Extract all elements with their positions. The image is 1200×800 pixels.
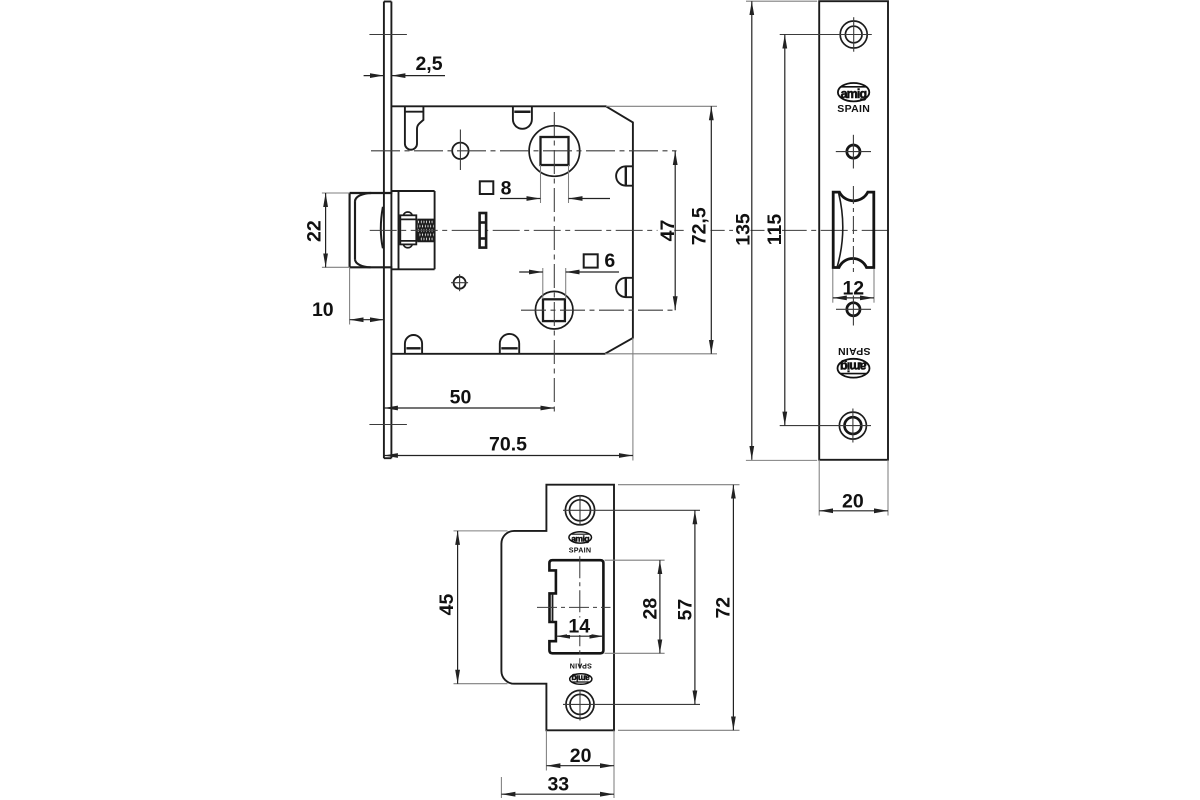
strike bottom screw hole <box>566 690 594 718</box>
svg-text:45: 45 <box>436 594 458 616</box>
svg-text:6: 6 <box>604 250 615 272</box>
latch opening (front view, bold) <box>833 192 874 267</box>
svg-text:2,5: 2,5 <box>415 53 442 75</box>
rivet circle lower <box>454 277 466 289</box>
centerline follower vertical <box>553 112 555 413</box>
centerline lower follower axis <box>521 309 677 311</box>
svg-text:57: 57 <box>674 599 696 621</box>
latch housing box <box>391 191 434 269</box>
dimension 70.5 (case depth) <box>384 434 633 456</box>
dimension 28 (opening height) <box>605 560 665 653</box>
strike top screw hole <box>565 496 594 525</box>
svg-text:47: 47 <box>657 220 679 242</box>
bottom screw hole <box>839 412 866 439</box>
svg-text:amig: amig <box>841 359 867 373</box>
centerline upper follower axis <box>371 150 677 152</box>
top tab (rivet post on top edge) <box>513 107 532 129</box>
case back edge extension line (to 70.5 dim) <box>632 338 634 461</box>
svg-text:amig: amig <box>572 674 590 684</box>
lock case outline <box>391 106 633 353</box>
strike horizontal centerline <box>537 606 611 608</box>
dimension 115 (screw spacing) <box>764 35 786 426</box>
svg-text:SPAIN: SPAIN <box>569 661 591 670</box>
bottom-edge tab right <box>500 334 519 354</box>
strike tab inner line <box>552 593 554 622</box>
svg-text:8: 8 <box>501 177 512 199</box>
dimension 22 (latch height) <box>303 193 349 267</box>
svg-text:20: 20 <box>570 745 592 767</box>
svg-text:10: 10 <box>312 299 334 321</box>
latch bevel arc behind faceplate <box>381 207 383 249</box>
svg-text:amig: amig <box>841 87 867 101</box>
svg-text:SPAIN: SPAIN <box>569 545 591 554</box>
svg-text:72,5: 72,5 <box>689 207 711 245</box>
screw hole centre tick (top, projected) <box>369 34 407 36</box>
svg-text:135: 135 <box>732 213 754 246</box>
bottom-edge tab left <box>405 335 422 354</box>
svg-text:20: 20 <box>842 490 864 512</box>
latch bolt head <box>350 193 393 267</box>
square spindle hole 6mm <box>543 299 565 321</box>
dimension 135 (faceplate length) <box>732 1 817 460</box>
svg-text:70.5: 70.5 <box>489 434 527 456</box>
dimension 50 (backset) <box>384 387 554 409</box>
svg-text:28: 28 <box>639 598 661 620</box>
svg-text:50: 50 <box>450 387 472 409</box>
small hole upper <box>847 145 860 158</box>
strike latch opening (bold) <box>549 560 603 653</box>
dimension 33 (overall width) <box>501 774 614 798</box>
faceplate (side view, vertical bar) <box>384 2 392 459</box>
svg-text:22: 22 <box>303 220 325 242</box>
small hole lower <box>847 303 860 316</box>
guide bracket on spindle axis <box>480 213 487 248</box>
dimension 72 (plate height) <box>618 485 740 731</box>
amig logo strike top <box>569 532 592 544</box>
strike vertical centerline <box>579 556 581 667</box>
spring / threaded section <box>411 219 440 241</box>
dimension 12 (latch width) <box>833 269 874 303</box>
dimension 2,5 (faceplate thickness) <box>364 53 445 76</box>
dimension 14 (opening width) <box>556 616 603 638</box>
strike plate outline <box>501 485 614 731</box>
faceplate front outline <box>819 1 888 460</box>
dimension 45 (lip length) <box>436 531 508 684</box>
dimension 20 (faceplate width) <box>819 460 888 516</box>
svg-text:33: 33 <box>547 774 569 796</box>
amig logo top <box>838 83 869 101</box>
amig logo bottom (rotated 180) <box>838 359 870 378</box>
svg-text:SPAIN: SPAIN <box>837 103 870 115</box>
svg-text:SPAIN: SPAIN <box>838 345 871 357</box>
dimension 20 (plate width) <box>546 730 614 798</box>
dimension 6 (square follower) with square symbol <box>519 250 619 299</box>
dimension 57 (hole spacing) <box>674 510 696 704</box>
follower hub lower (circle) <box>535 291 573 329</box>
top screw hole <box>840 21 867 48</box>
latch bolt face curve (front view) <box>837 193 843 267</box>
latch vertical centerline <box>852 186 854 272</box>
centerline latch axis (horizontal, both views) <box>370 229 892 231</box>
right-edge tab upper <box>616 166 633 185</box>
top slot (latch guide cut-out) <box>405 106 424 149</box>
spindle collar <box>400 212 418 248</box>
svg-text:14: 14 <box>568 616 590 638</box>
dimension 72,5 (case height) <box>605 106 717 353</box>
dimension 10 (latch protrusion) <box>312 267 384 324</box>
screw hole centre tick (bottom, projected) <box>369 424 407 426</box>
square spindle hole 8mm <box>541 137 569 165</box>
svg-text:72: 72 <box>712 597 734 619</box>
dimension 47 (follower spacing) <box>657 151 679 310</box>
dimension 8 (square follower) with square symbol <box>480 165 610 203</box>
right-edge tab lower <box>616 278 633 297</box>
rivet circle upper <box>452 143 468 159</box>
amig logo strike bottom (rotated) <box>570 674 592 685</box>
svg-text:115: 115 <box>764 214 786 246</box>
follower hub upper (circle) <box>529 126 580 177</box>
svg-text:amig: amig <box>571 533 589 543</box>
